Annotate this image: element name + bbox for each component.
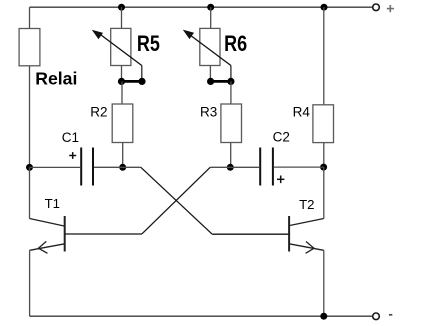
- wire: relay column from rail to relay top: [29, 7, 31, 28]
- capacitor C1: [81, 148, 93, 186]
- transistor T1 emitter diagonal: [30, 244, 65, 251]
- junction: node A (relay / C1 / T1 collector): [26, 164, 33, 171]
- transistor T2 collector diagonal: [289, 219, 324, 226]
- svg-text:T1: T1: [45, 196, 60, 211]
- capacitor C2: [260, 148, 273, 186]
- wire: cross-coupling C1 to T2 base (diagonal): [141, 167, 212, 234]
- svg-text:R2: R2: [90, 104, 107, 119]
- transistor T2 emitter arrow: [306, 242, 314, 254]
- transistor T2 bar: [288, 216, 290, 252]
- junction: R6 wiper dot: [227, 78, 234, 85]
- wire: top supply rail: [30, 6, 373, 8]
- junction: node B (R2 / C1 / T2 base link): [119, 164, 126, 171]
- wire: T1 base horizontal: [65, 233, 142, 235]
- wire: T1 emitter down to bottom rail: [29, 250, 31, 316]
- label: + (positive supply): [387, 5, 394, 12]
- wire: R6 wiper drop: [230, 66, 232, 82]
- junction: top rail dot at R4: [321, 4, 328, 11]
- svg-text:R4: R4: [293, 104, 311, 119]
- relay coil (Relai): [19, 29, 40, 66]
- wire: R6 wiper-to-terminal strap (thick): [211, 80, 231, 83]
- svg-text:T2: T2: [299, 197, 314, 212]
- wire: rail to R4 top: [323, 7, 325, 105]
- wire: R6 bottom terminal drop: [209, 66, 211, 82]
- potentiometer R6 body: [200, 28, 220, 65]
- resistor R3: [221, 104, 242, 143]
- transistor T1 emitter arrow: [38, 241, 47, 253]
- svg-text:R6: R6: [224, 31, 247, 56]
- wire: R2 bottom to node B: [122, 143, 124, 168]
- junction: R5 bottom terminal dot: [118, 78, 125, 85]
- wire: T2 emitter down to bottom rail: [323, 250, 325, 316]
- transistor T1 bar: [64, 216, 66, 252]
- wire: C1 right plate to node B and on to coupling corner: [94, 166, 141, 168]
- svg-text:R3: R3: [200, 104, 217, 119]
- junction: bottom rail dot at T2 emitter: [320, 313, 327, 320]
- svg-text:Relai: Relai: [35, 68, 77, 88]
- wire: R5 bottom terminal drop: [121, 66, 123, 82]
- label: C2 + polarity: [277, 176, 284, 184]
- wire: bottom supply rail: [30, 315, 373, 317]
- wire: relay bottom to node A: [29, 66, 31, 168]
- wire: R5 wiper drop: [141, 66, 143, 82]
- wire: R5 wiper-to-terminal strap (thick): [122, 80, 143, 83]
- transistor T1: [30, 216, 65, 253]
- label: C1 + polarity: [69, 152, 76, 159]
- wire: node C to C2 left plate: [210, 166, 259, 168]
- junction: top rail dot at R5: [118, 4, 125, 11]
- junction: top rail dot at R6: [207, 4, 214, 11]
- wire: C2 right plate to node D: [274, 166, 324, 168]
- potentiometer R6 wiper arrow: [184, 31, 231, 66]
- wire: rail to R5 top: [121, 7, 123, 28]
- transistor T2 emitter diagonal: [289, 244, 324, 251]
- wire: R3 bottom to node C: [230, 143, 232, 168]
- junction: R6 bottom terminal dot: [207, 78, 214, 85]
- wire: node D down to T2 collector: [323, 167, 325, 218]
- potentiometer R5 wiper arrow: [93, 31, 142, 66]
- label: - (negative supply): [389, 314, 392, 316]
- wire: cross-coupling T1 base to node C (diagonal): [142, 167, 210, 234]
- wire: T2 base horizontal: [212, 233, 289, 235]
- resistor R4: [313, 105, 334, 143]
- terminal: + output circle: [373, 4, 380, 11]
- wire: node A to C1 left plate: [30, 166, 81, 168]
- wire: node A down to T1 collector: [29, 167, 31, 218]
- junction: R5 wiper dot: [138, 78, 145, 85]
- junction: node C (R3 / C2 / T1 base link): [227, 164, 234, 171]
- svg-text:C1: C1: [62, 130, 79, 145]
- svg-text:R5: R5: [137, 31, 160, 56]
- resistor R2: [112, 104, 133, 143]
- svg-text:C2: C2: [273, 130, 290, 145]
- terminal: - output circle: [373, 313, 380, 320]
- wire: R4 bottom to node D: [323, 143, 325, 168]
- transistor T2: [289, 216, 324, 253]
- junction: node D (R4 / C2 / T2 collector): [320, 164, 327, 171]
- wire: R5 node down to R2: [121, 81, 123, 104]
- wire: rail to R6 top: [210, 7, 212, 28]
- transistor T1 collector diagonal: [30, 219, 65, 227]
- potentiometer R5 body: [111, 28, 131, 65]
- wire: R6 wiper node down to R3: [230, 81, 232, 104]
